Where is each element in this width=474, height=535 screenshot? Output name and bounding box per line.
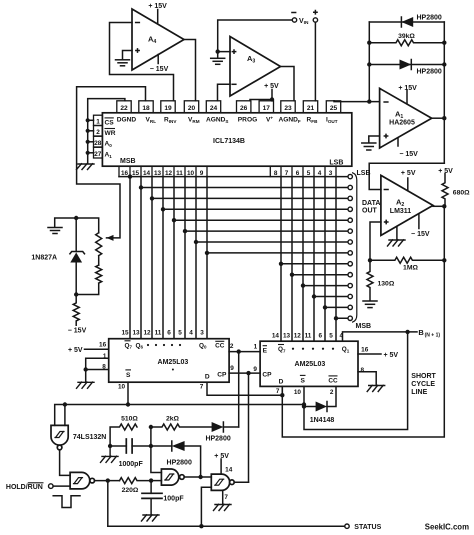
- svg-text:+ 5V: + 5V: [214, 453, 229, 460]
- svg-text:17: 17: [263, 105, 271, 112]
- terminal: V_IN minus: [292, 18, 296, 22]
- svg-text:11: 11: [155, 329, 162, 336]
- wire: G1 output to G2 input A: [60, 450, 71, 476]
- wire: gate1 input B from rail: [64, 405, 66, 426]
- svg-text:CS: CS: [105, 119, 115, 126]
- svg-text:+ 15V: + 15V: [148, 3, 167, 10]
- svg-text:22: 22: [120, 105, 128, 112]
- svg-text:15: 15: [121, 329, 129, 336]
- svg-text:AGNDS: AGNDS: [206, 117, 229, 124]
- wire: V_RL pin 18 to potentiometer wiper: [77, 87, 146, 238]
- svg-text:HOLD/RUN: HOLD/RUN: [6, 484, 43, 491]
- A2 +5V stub: [407, 178, 409, 191]
- svg-text:10: 10: [187, 170, 195, 177]
- svg-text:7: 7: [224, 494, 228, 501]
- connector bracket: [353, 173, 357, 322]
- svg-text:AM25L03: AM25L03: [295, 361, 326, 368]
- wire: left SAR CC to right SAR E: [229, 351, 260, 353]
- svg-text:SHORT: SHORT: [411, 373, 436, 380]
- wire: right SAR pin 8 to ground: [358, 372, 376, 385]
- DAC ICL7134B body: [102, 113, 351, 166]
- svg-text:+ 5V: + 5V: [68, 347, 83, 354]
- wire: A2 output rail down to D line: [282, 206, 444, 437]
- resistor below potentiometer: [76, 265, 102, 294]
- svg-text:1N827A: 1N827A: [31, 255, 57, 262]
- svg-text:DGND: DGND: [117, 117, 137, 124]
- svg-text:680Ω: 680Ω: [453, 189, 470, 196]
- svg-text:9: 9: [200, 170, 204, 177]
- op-amp A1 HA2605: [380, 88, 432, 148]
- svg-text:E: E: [263, 348, 268, 355]
- wire: G4 pin 7 to ground: [222, 490, 224, 503]
- svg-text:15: 15: [132, 170, 140, 177]
- ground (G4 pin 7, hatched): [214, 504, 232, 510]
- node: 220/100pF/G3 input B: [149, 478, 153, 482]
- resistor 220 ohm: [120, 478, 152, 484]
- wire: +5V through 680 ohm to A2 output: [442, 174, 448, 207]
- svg-text:6: 6: [296, 170, 300, 177]
- svg-text:16: 16: [361, 346, 369, 353]
- diode HP2800 (top, cathode left): [401, 17, 413, 27]
- svg-text:8: 8: [274, 170, 278, 177]
- G3 schmitt symbol: [165, 474, 174, 480]
- diode HP2800 (to CC line, cathode right): [212, 422, 239, 432]
- svg-text:− 15V: − 15V: [399, 151, 418, 158]
- svg-text:9: 9: [230, 365, 234, 372]
- node: A1 - input junction: [367, 99, 371, 103]
- node: B(N+1) junction: [405, 330, 409, 334]
- svg-text:20: 20: [188, 105, 196, 112]
- svg-text:AGNDF: AGNDF: [279, 117, 301, 124]
- svg-text:CP: CP: [217, 371, 227, 378]
- svg-text:1: 1: [103, 353, 107, 360]
- VIN polarity marks: [291, 12, 296, 14]
- svg-text:5: 5: [329, 332, 333, 339]
- svg-text:25: 25: [330, 105, 338, 112]
- A2 polarity marks: [384, 189, 389, 191]
- svg-text:CC: CC: [328, 377, 338, 384]
- svg-text:23: 23: [284, 105, 292, 112]
- wire: CS/WR/A0/A1 bus to DGND pin 22: [88, 99, 125, 164]
- wire: G4 +5V supply pin 14: [220, 459, 222, 474]
- ground (left SAR, hatched): [77, 382, 95, 388]
- svg-text:26: 26: [240, 105, 248, 112]
- svg-text:130Ω: 130Ω: [378, 280, 395, 287]
- svg-text:+ 5V: + 5V: [401, 170, 416, 177]
- svg-text:LM311: LM311: [390, 208, 412, 215]
- svg-text:5: 5: [178, 329, 182, 336]
- wire: G4 output to CP tap: [234, 481, 248, 483]
- svg-text:1: 1: [254, 344, 258, 351]
- data output connector circles: [348, 174, 352, 178]
- svg-text:+ 5V: + 5V: [384, 352, 399, 359]
- diode HP2800 (monostable, cathode left): [151, 441, 201, 477]
- wire: A1 output: [432, 117, 445, 119]
- svg-text:1N4148: 1N4148: [310, 417, 335, 424]
- node: 510/2k junction: [149, 425, 153, 429]
- svg-text:LINE: LINE: [411, 389, 427, 396]
- NAND gate (G3): [161, 469, 184, 485]
- node: CP tap: [246, 371, 250, 375]
- svg-text:12: 12: [165, 170, 173, 177]
- svg-text:WR: WR: [105, 130, 116, 137]
- node: +5V junction at pin 17: [270, 97, 274, 101]
- svg-text:13: 13: [283, 332, 291, 339]
- node: pins 1/8 ground junction: [84, 367, 88, 371]
- ground (130 ohm, bar style): [363, 301, 377, 308]
- svg-text:HP2800: HP2800: [205, 436, 230, 443]
- svg-text:12: 12: [143, 329, 151, 336]
- node: 1N4148 anode on short-cycle vertical: [302, 404, 306, 408]
- node: A1 output: [442, 116, 446, 120]
- svg-text:2: 2: [330, 389, 334, 396]
- svg-text:24: 24: [210, 105, 218, 112]
- NAND gate 74LS132N (G1, vertical): [51, 425, 68, 449]
- svg-text:11: 11: [305, 332, 312, 339]
- svg-text:7: 7: [276, 388, 280, 395]
- wire: I_OUT pin 25 to A1 inverting input: [334, 100, 380, 103]
- wire: node to G3 input B: [151, 480, 161, 482]
- potentiometer wiper arrowhead: [107, 235, 114, 241]
- wire: A1 feedback right rail / output: [443, 22, 445, 163]
- node: rail at left SAR S pin 10: [126, 402, 130, 406]
- svg-text:6: 6: [167, 329, 171, 336]
- ground (1000pF node, hatched): [101, 446, 119, 462]
- wire: A2 + input to 1M/130 node: [370, 222, 381, 260]
- terminal: STATUS output: [345, 524, 349, 528]
- wire: A4 + input to ground: [123, 51, 133, 59]
- wire: G3 output to G4 input A: [184, 476, 211, 478]
- node: A2 output / 680 pullup: [442, 204, 446, 208]
- SAR register U3 AM25L03 (right): [260, 341, 358, 386]
- svg-text:− 15V: − 15V: [411, 231, 430, 238]
- wire: +5V to V+ pin 17 and PROG pin 26: [250, 90, 272, 101]
- svg-text:8: 8: [102, 363, 106, 370]
- ground (control bus, hatched): [77, 164, 95, 170]
- NAND gate (G2, HOLD/RUN): [70, 472, 94, 489]
- svg-text:10: 10: [118, 384, 126, 391]
- wire: bus tap pin 1 CS: [88, 119, 94, 121]
- svg-text:2: 2: [96, 129, 100, 136]
- wire: A4 output to V_RM pin 20: [184, 40, 196, 101]
- resistor 510 ohm: [110, 424, 137, 446]
- svg-text:13: 13: [154, 170, 162, 177]
- node: bus junction pin1: [86, 118, 90, 122]
- svg-text:OUT: OUT: [362, 208, 378, 215]
- node: A3 + input junction: [216, 49, 220, 53]
- svg-text:14: 14: [225, 467, 233, 474]
- DAC left pin boxes (CS WR A0 A1): [94, 115, 103, 158]
- op-amp A2 LM311 comparator: [381, 175, 433, 235]
- svg-text:PROG: PROG: [238, 117, 257, 124]
- node: 39k right: [442, 41, 446, 45]
- svg-text:ICL7134B: ICL7134B: [213, 138, 245, 145]
- G1 schmitt symbol: [55, 432, 64, 438]
- svg-text:+ 15V: + 15V: [398, 85, 417, 92]
- DAC bottom pin boxes (data bits): [119, 166, 336, 176]
- node: diode row 2 right: [442, 62, 446, 66]
- node: diode row 2 left: [367, 62, 371, 66]
- wire: G2 output node: [95, 480, 120, 482]
- G2 schmitt symbol: [74, 478, 83, 484]
- G4 schmitt symbol: [215, 479, 224, 485]
- node: cap/diode row junction: [149, 444, 153, 448]
- svg-text:10: 10: [294, 389, 302, 396]
- svg-text:CC: CC: [215, 343, 225, 350]
- svg-text:(N + 1): (N + 1): [425, 333, 441, 339]
- svg-text:8: 8: [361, 367, 365, 374]
- potentiometer resistor body: [96, 233, 102, 265]
- svg-text:16: 16: [99, 341, 107, 348]
- wire: G2 output down to status rail: [107, 481, 109, 527]
- svg-text:S: S: [126, 372, 131, 379]
- node: status rail to G4 input B: [199, 524, 203, 528]
- capacitor 100pF: [142, 481, 162, 515]
- A1 +15V stub: [406, 91, 408, 104]
- wire: left SAR pins 1 and 8 to ground: [86, 358, 109, 381]
- A4 +15V supply stub: [157, 10, 159, 24]
- ground (zener node, bar style): [48, 228, 62, 234]
- svg-text:HP2800: HP2800: [417, 15, 442, 22]
- svg-text:4: 4: [340, 332, 344, 339]
- svg-text:MSB: MSB: [356, 323, 372, 330]
- svg-text:16: 16: [121, 170, 129, 177]
- node: zener bottom: [74, 292, 78, 296]
- svg-text:27: 27: [94, 151, 102, 158]
- A4 -15V supply stub: [157, 55, 159, 64]
- node: 510/1000pF/ground: [108, 444, 112, 448]
- wire: left SAR D pin 7 to D line: [207, 382, 282, 395]
- resistor 1M feedback row: [370, 257, 444, 263]
- wire: pin box underline / LSB data line to connector: [119, 176, 348, 178]
- wire: HOLD/RUN to G2 input B: [53, 485, 70, 487]
- A2 ground stub: [396, 227, 398, 240]
- wire: A1 feedback diode row 2: [369, 64, 444, 66]
- wire: bus tap pin 28 A0: [88, 141, 94, 143]
- resistor to -15V supply: [73, 295, 79, 326]
- svg-text:74LS132N: 74LS132N: [73, 434, 106, 441]
- wire: A1 feedback left rail: [368, 22, 370, 102]
- capacitor 1000pF: [110, 439, 151, 453]
- ground (A3 + input, bar style): [211, 58, 225, 64]
- node: rail to gate1 input B: [63, 402, 67, 406]
- svg-text:AM25L03: AM25L03: [158, 359, 189, 366]
- ground (right SAR pin 8, hatched): [367, 385, 385, 391]
- svg-text:12: 12: [294, 332, 302, 339]
- wire: A1 + input to ground: [369, 136, 380, 142]
- svg-text:HP2800: HP2800: [417, 69, 442, 76]
- svg-text:− 15V: − 15V: [150, 66, 169, 73]
- svg-text:SeekIC.com: SeekIC.com: [425, 523, 469, 532]
- wire: G4 input B from status rail: [201, 487, 211, 526]
- svg-text:D: D: [279, 378, 284, 385]
- svg-text:D: D: [205, 373, 210, 380]
- svg-text:HP2800: HP2800: [167, 459, 192, 466]
- wire: right SAR S pin 10 stub: [303, 386, 305, 404]
- wire: V_IN+ to R_FB pin 21: [314, 22, 316, 101]
- wire: A3 + input node: [218, 52, 230, 58]
- wire: CP line between SARs: [229, 372, 260, 374]
- wire: A4 inverting input to R_INV pin 19: [110, 23, 174, 101]
- svg-text:4: 4: [189, 329, 193, 336]
- op-amp A3: [230, 37, 281, 97]
- NAND gate (G4, clock driver): [211, 474, 234, 490]
- node: bus junction pin27: [86, 151, 90, 155]
- zener diode 1N827A: [70, 218, 85, 295]
- svg-text:9: 9: [253, 366, 257, 373]
- svg-text:11: 11: [176, 170, 183, 177]
- A4 input polarity marks: [135, 22, 140, 24]
- svg-text:100pF: 100pF: [163, 496, 184, 503]
- svg-text:+ 5V: + 5V: [264, 83, 279, 90]
- A1 polarity marks: [383, 101, 388, 103]
- svg-text:3: 3: [200, 329, 204, 336]
- wire: A2 output: [433, 205, 444, 207]
- wire: A3 - input to AGND_S pin 24: [218, 84, 231, 101]
- svg-text:2kΩ: 2kΩ: [166, 415, 180, 422]
- zener reference top node wire: [55, 218, 99, 233]
- wire: A3 output to AGND_F pin 23: [281, 67, 295, 101]
- svg-text:39kΩ: 39kΩ: [398, 33, 415, 40]
- svg-text:MSB: MSB: [120, 158, 136, 165]
- wire: right SAR Q1 pin 4 to B(N+1): [343, 332, 418, 341]
- svg-text:+ 5V: + 5V: [438, 168, 453, 175]
- svg-text:2: 2: [230, 343, 234, 350]
- wire: S (start) rail: [55, 405, 304, 426]
- svg-text:13: 13: [132, 329, 140, 336]
- svg-text:1MΩ: 1MΩ: [403, 265, 418, 272]
- svg-text:7: 7: [285, 170, 289, 177]
- A3 input polarity marks: [232, 49, 237, 54]
- svg-text:HA2605: HA2605: [389, 120, 415, 127]
- node: CC-E tap: [237, 349, 241, 353]
- op-amp A4: [132, 9, 184, 70]
- A1 -15V stub: [397, 138, 399, 146]
- terminal: HOLD/RUN input: [49, 484, 54, 489]
- svg-text:7: 7: [200, 384, 204, 391]
- svg-text:3: 3: [329, 170, 333, 177]
- svg-text:4: 4: [318, 170, 322, 177]
- svg-text:18: 18: [142, 105, 150, 112]
- node: bus junction pin2: [86, 129, 90, 133]
- diode HP2800 (second, cathode right): [400, 60, 412, 70]
- resistor 130 ohm to ground: [367, 260, 373, 300]
- svg-text:1000pF: 1000pF: [119, 461, 144, 468]
- svg-text:21: 21: [307, 105, 315, 112]
- node: G3 output / diode / G4: [198, 475, 202, 479]
- wire: +5V to left SAR pin 16: [85, 348, 109, 350]
- terminal: V_IN plus: [313, 18, 317, 22]
- resistor 2k ohm: [151, 424, 212, 430]
- svg-text:DATA: DATA: [362, 200, 380, 207]
- DAC top pin boxes: [117, 101, 341, 113]
- wire: bus tap pin 27 A1: [88, 152, 94, 154]
- node: A2 + input / 1M / 130: [368, 258, 372, 262]
- junction dots on data rows: [128, 174, 132, 178]
- node: 1M right / output rail: [442, 258, 446, 262]
- svg-text:220Ω: 220Ω: [122, 487, 139, 494]
- DAC data-bit verticals to SAR outputs (pins 8..3): [281, 177, 336, 342]
- ground (A1 + input, bar style): [362, 143, 376, 150]
- svg-text:S: S: [300, 377, 305, 384]
- wire: left SAR S pin 10 to start rail: [127, 382, 129, 404]
- pulse waveform symbol: [53, 496, 80, 508]
- svg-text:LSB: LSB: [329, 159, 343, 166]
- wire: right SAR pin 16 to +5V: [358, 353, 381, 355]
- wire: A1 output to A2 - input: [369, 163, 444, 189]
- svg-text:5: 5: [307, 170, 311, 177]
- node: S rail / short-cycle junction: [302, 402, 306, 406]
- ground (A2, hatched): [388, 240, 406, 246]
- wire: status rail: [108, 525, 345, 527]
- SAR register U2 AM25L03 (left): [109, 339, 229, 383]
- svg-text:CYCLE: CYCLE: [411, 381, 435, 388]
- svg-text:19: 19: [164, 105, 172, 112]
- wire: CC-E tap down to HP2800 diode: [238, 352, 240, 427]
- wire: V_IN- terminal to A3 + input: [218, 20, 293, 52]
- data bus rows to output connector: [141, 188, 348, 319]
- node: zener top: [74, 216, 78, 220]
- A2 -15V stub: [418, 214, 420, 229]
- svg-text:CP: CP: [262, 372, 272, 379]
- ground (A4 + input, bar style): [116, 60, 130, 66]
- wire: short cycle line (B(N+1) to S rail): [304, 332, 408, 430]
- svg-text:14: 14: [143, 170, 151, 177]
- diode 1N4148 (S to CC): [304, 386, 336, 411]
- svg-text:28: 28: [94, 140, 102, 147]
- node: bus junction pin28: [86, 140, 90, 144]
- svg-text:510Ω: 510Ω: [121, 415, 138, 422]
- wire: A1 feedback top row: [369, 21, 444, 23]
- wire: right SAR D pin 7 stub: [281, 386, 283, 395]
- wire: CP tap down to clock gate output: [248, 373, 250, 482]
- node: G2 output: [106, 478, 110, 482]
- node: 39k left: [367, 41, 371, 45]
- wire: bus tap pin 2 WR: [88, 130, 94, 132]
- svg-text:B: B: [418, 328, 424, 337]
- svg-text:1: 1: [96, 118, 100, 125]
- wire: oscillator node vertical: [151, 427, 162, 473]
- node: D line junction at right SAR pin 7: [280, 393, 284, 397]
- ground (100pF, hatched): [142, 515, 160, 521]
- svg-text:14: 14: [272, 332, 280, 339]
- svg-text:LSB: LSB: [357, 170, 371, 177]
- svg-text:STATUS: STATUS: [354, 524, 381, 531]
- svg-text:− 15V: − 15V: [68, 328, 87, 335]
- svg-text:6: 6: [319, 332, 323, 339]
- DAC data-bit verticals to SAR outputs (pins 16..9): [130, 177, 207, 339]
- resistor 39k feedback: [369, 40, 444, 46]
